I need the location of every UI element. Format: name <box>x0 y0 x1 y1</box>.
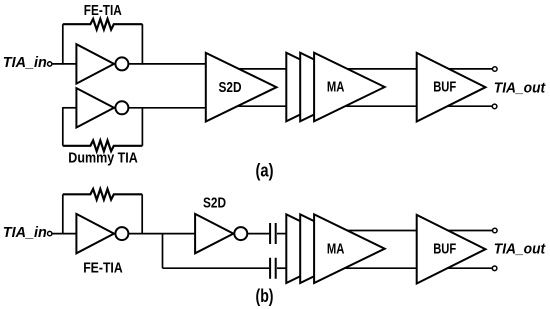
svg-text:MA: MA <box>327 241 345 258</box>
svg-text:TIA_out: TIA_out <box>494 241 546 258</box>
inverter bubble FE-TIA (a) <box>115 57 128 70</box>
buffer BUF triangle (a) <box>417 53 486 122</box>
inverter bubble S2D (b) <box>234 227 247 240</box>
wire capacitor C1 to MA (b) <box>277 233 287 235</box>
op-amp FE-TIA inverter triangle (a) <box>76 44 114 83</box>
capacitor C1 top coupling (b) <box>270 223 276 244</box>
wire feedback right vertical (b) <box>141 194 143 234</box>
svg-text:(a): (a) <box>256 160 274 181</box>
svg-text:TIA_in: TIA_in <box>3 54 47 71</box>
svg-text:TIA_in: TIA_in <box>3 224 47 241</box>
wire BUF output bottom (a) <box>445 105 492 107</box>
wire capacitor C2 to MA (b) <box>277 267 287 269</box>
input terminal circle TIA_in (a) <box>48 62 52 66</box>
amplifier S2D triangle (a) <box>206 53 277 122</box>
buffer BUF triangle (b) <box>417 215 486 284</box>
svg-text:FE-TIA: FE-TIA <box>83 259 123 276</box>
svg-text:(b): (b) <box>256 285 274 306</box>
output terminal circle top (a) <box>493 67 498 72</box>
wire feedback left vertical (b) <box>62 194 64 234</box>
wire dummy feedback right vertical (a) <box>141 107 143 146</box>
wire input to FE-TIA inverter (a) <box>52 63 77 65</box>
svg-text:MA: MA <box>327 79 345 96</box>
svg-text:TIA_out: TIA_out <box>494 79 546 96</box>
amplifier MA stage 2 triangle (a) <box>300 53 371 122</box>
op-amp FE-TIA inverter triangle (b) <box>76 214 114 253</box>
svg-text:BUF: BUF <box>433 79 456 96</box>
wire FE-TIA output to S2D (a) <box>127 63 206 65</box>
amplifier MA stage 3 triangle (b) <box>314 214 385 283</box>
wire feedback right vertical (a) <box>141 24 143 64</box>
resistor FE-TIA feedback (b) <box>63 189 142 200</box>
wire MA output bottom (a) <box>340 105 418 107</box>
amplifier MA stage 3 triangle (a) <box>314 53 385 122</box>
inverter bubble FE-TIA (b) <box>115 227 128 240</box>
svg-text:BUF: BUF <box>433 241 456 258</box>
amplifier MA stage 1 triangle (b) <box>286 214 357 283</box>
resistor Dummy TIA feedback (a) <box>63 141 143 152</box>
svg-text:S2D: S2D <box>203 195 226 212</box>
output terminal circle bottom (b) <box>492 266 497 271</box>
wire dummy output to S2D (a) <box>127 107 206 109</box>
wire BUF output bottom (b) <box>445 267 492 269</box>
op-amp S2D inverter triangle (b) <box>195 214 233 253</box>
wire MA output top (b) <box>340 230 418 232</box>
output terminal circle bottom (a) <box>492 104 497 109</box>
inverter bubble Dummy TIA (a) <box>115 101 128 114</box>
wire BUF output top (b) <box>445 230 492 232</box>
wire junction vertical to lower path (b) <box>162 234 164 269</box>
wire MA output top (a) <box>340 68 418 70</box>
wire S2D output bottom (a) <box>237 105 287 107</box>
wire MA output bottom (b) <box>340 267 418 269</box>
wire S2D output top (a) <box>237 68 287 70</box>
svg-text:S2D: S2D <box>219 79 242 96</box>
wire S2D bubble to capacitor C1 (b) <box>247 233 269 235</box>
input terminal circle TIA_in (b) <box>48 231 52 235</box>
resistor FE-TIA feedback (a) <box>63 19 143 30</box>
wire dummy feedback left vertical (a) <box>62 107 64 146</box>
wire dummy input stub (a) <box>63 107 77 109</box>
wire input to FE-TIA inverter (b) <box>52 233 77 235</box>
svg-text:Dummy TIA: Dummy TIA <box>68 149 138 166</box>
wire feedback left vertical (a) <box>62 24 64 64</box>
svg-text:FE-TIA: FE-TIA <box>84 2 122 19</box>
wire BUF output top (a) <box>445 68 492 70</box>
op-amp Dummy TIA inverter triangle (a) <box>76 88 114 127</box>
wire lower path to capacitor C2 (b) <box>163 267 270 269</box>
wire FE-TIA output to S2D (b) <box>127 233 196 235</box>
capacitor C2 bottom coupling (b) <box>270 258 276 279</box>
amplifier MA stage 1 triangle (a) <box>286 53 357 122</box>
output terminal circle top (b) <box>493 228 498 233</box>
amplifier MA stage 2 triangle (b) <box>300 214 371 283</box>
